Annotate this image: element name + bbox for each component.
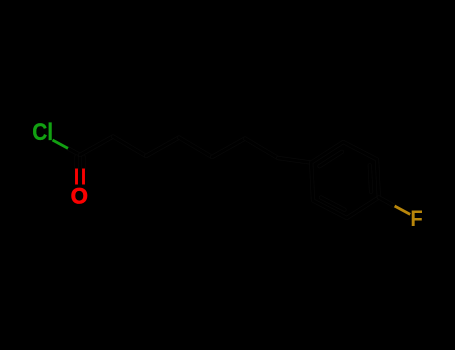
svg-text:O: O bbox=[71, 184, 88, 209]
bond C4-C5 bbox=[179, 138, 212, 158]
bond Car-F fluorine half (gold) bbox=[395, 206, 411, 214]
bond Car-F carbon half (black) bbox=[379, 197, 395, 206]
bond C6-C7 bbox=[245, 139, 278, 159]
bond C5-C6 bbox=[212, 139, 245, 158]
bond C7-C8 (to ring) bbox=[278, 158, 311, 163]
bond Cl-C1 carbon half (black) bbox=[68, 148, 80, 155]
double bond C1=O oxygen half, line 1 (red) bbox=[75, 169, 78, 185]
bond Cl-C1 chlorine half (green) bbox=[53, 140, 69, 148]
svg-text:Cl: Cl bbox=[32, 119, 53, 146]
bond C3-C4 bbox=[146, 138, 179, 157]
benzene inner double bond 3 bbox=[321, 198, 345, 210]
double bond C1=O oxygen half, line 2 (red) bbox=[82, 169, 85, 185]
double bond C1=O carbon halves (black) bbox=[77, 157, 84, 169]
svg-text:F: F bbox=[410, 206, 422, 231]
bond C1-C2 bbox=[80, 137, 113, 156]
bond C2-C3 bbox=[113, 137, 146, 157]
benzene ring outline bbox=[311, 142, 379, 218]
benzene inner double bond 2 bbox=[370, 165, 371, 192]
benzene inner double bond 1 bbox=[320, 152, 342, 166]
